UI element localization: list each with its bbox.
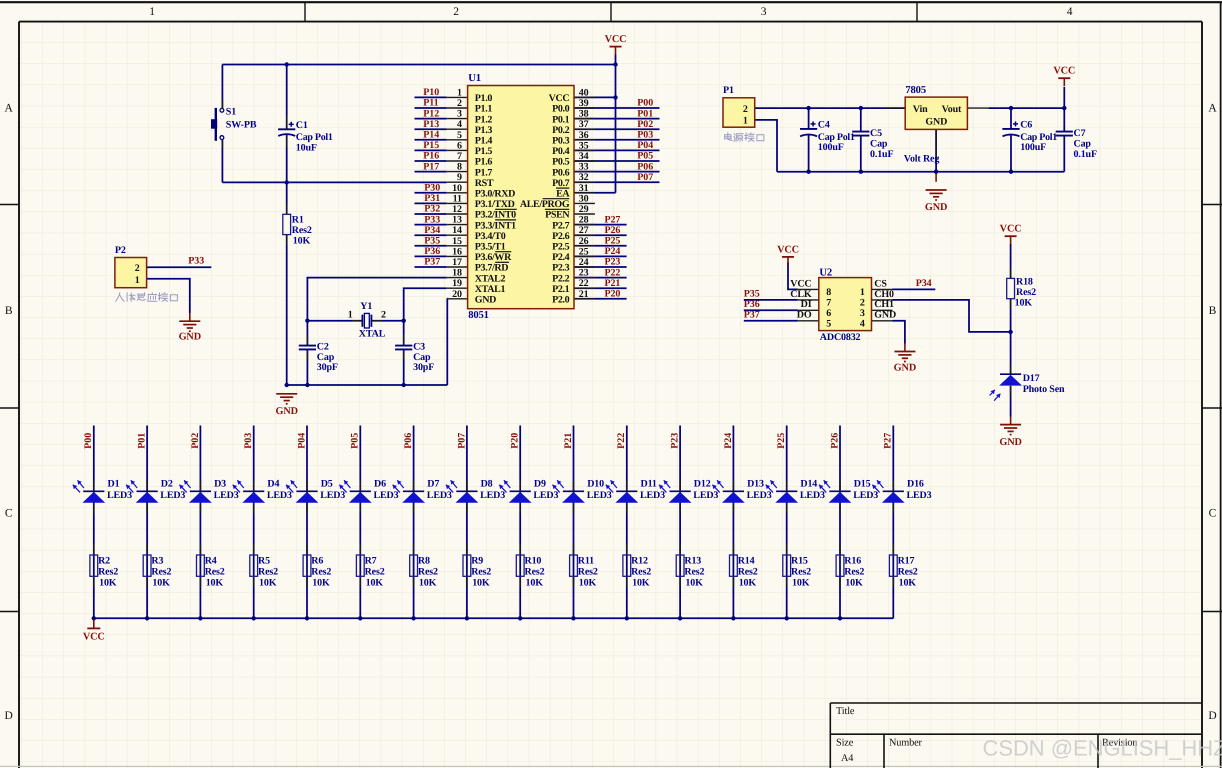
svg-text:24: 24	[579, 257, 589, 268]
svg-text:D: D	[5, 710, 13, 722]
svg-text:18: 18	[452, 268, 462, 279]
svg-text:P36: P36	[744, 299, 760, 310]
svg-text:Y1: Y1	[360, 301, 372, 312]
svg-text:VCC: VCC	[549, 93, 570, 104]
svg-text:Res2: Res2	[311, 567, 331, 578]
svg-text:P26: P26	[605, 225, 621, 236]
svg-text:6: 6	[457, 140, 462, 151]
svg-text:10K: 10K	[739, 578, 757, 589]
svg-text:D6: D6	[374, 478, 386, 489]
svg-text:Number: Number	[889, 737, 923, 748]
svg-text:10K: 10K	[419, 578, 437, 589]
svg-text:11: 11	[453, 193, 462, 204]
svg-text:VCC: VCC	[1000, 224, 1022, 235]
svg-text:0.1uF: 0.1uF	[1074, 149, 1097, 160]
svg-text:3: 3	[761, 6, 767, 18]
svg-text:P33: P33	[424, 214, 440, 225]
svg-text:U1: U1	[468, 73, 481, 84]
svg-text:10K: 10K	[366, 578, 384, 589]
svg-text:D9: D9	[534, 478, 546, 489]
svg-text:P24: P24	[605, 246, 621, 257]
svg-text:EA: EA	[556, 189, 570, 200]
svg-text:P03: P03	[637, 130, 653, 141]
svg-text:P3.4/T0: P3.4/T0	[475, 231, 506, 242]
svg-text:30: 30	[579, 193, 589, 204]
svg-text:C7: C7	[1074, 128, 1086, 139]
svg-text:9: 9	[457, 172, 462, 183]
svg-text:Res2: Res2	[738, 567, 758, 578]
svg-text:D12: D12	[694, 478, 711, 489]
svg-text:Volt Reg: Volt Reg	[904, 153, 940, 164]
svg-text:4: 4	[860, 318, 865, 329]
svg-text:R12: R12	[631, 556, 648, 567]
svg-text:12: 12	[452, 204, 462, 215]
svg-text:P1.4: P1.4	[475, 136, 493, 147]
svg-text:10K: 10K	[259, 578, 277, 589]
svg-text:P23: P23	[670, 433, 681, 449]
svg-text:P3.6/WR: P3.6/WR	[475, 252, 512, 263]
svg-text:22: 22	[579, 278, 589, 289]
svg-text:P2: P2	[115, 245, 126, 256]
svg-text:P04: P04	[296, 433, 307, 449]
svg-text:P13: P13	[423, 119, 439, 130]
svg-text:P36: P36	[424, 246, 440, 257]
svg-text:26: 26	[579, 236, 589, 247]
svg-text:R4: R4	[205, 556, 217, 567]
svg-text:P05: P05	[637, 151, 653, 162]
svg-text:10K: 10K	[685, 578, 703, 589]
svg-text:7: 7	[826, 297, 831, 308]
svg-text:23: 23	[579, 268, 589, 279]
svg-text:B: B	[1209, 305, 1217, 317]
svg-text:P07: P07	[637, 172, 653, 183]
svg-text:1: 1	[860, 287, 865, 298]
svg-text:8051: 8051	[468, 310, 489, 321]
svg-text:32: 32	[579, 172, 589, 183]
svg-text:6: 6	[826, 308, 831, 319]
svg-text:GND: GND	[874, 310, 896, 321]
svg-text:VCC: VCC	[790, 278, 811, 289]
svg-text:P3.1/TXD: P3.1/TXD	[475, 199, 515, 210]
svg-text:17: 17	[452, 257, 462, 268]
svg-text:10K: 10K	[152, 578, 170, 589]
svg-text:CH0: CH0	[874, 289, 894, 300]
svg-text:15: 15	[452, 236, 462, 247]
svg-text:R16: R16	[844, 556, 861, 567]
svg-text:36: 36	[579, 130, 589, 141]
svg-text:D14: D14	[800, 478, 817, 489]
svg-text:31: 31	[579, 183, 589, 194]
svg-text:2: 2	[860, 297, 865, 308]
svg-text:P0.7: P0.7	[552, 178, 570, 189]
svg-text:P02: P02	[637, 119, 653, 130]
svg-text:10K: 10K	[526, 578, 544, 589]
svg-text:1: 1	[135, 275, 140, 286]
svg-text:P11: P11	[423, 98, 438, 109]
svg-text:R18: R18	[1016, 277, 1033, 288]
svg-text:Res2: Res2	[525, 567, 545, 578]
svg-text:DO: DO	[797, 310, 812, 321]
svg-text:DI: DI	[801, 299, 812, 310]
svg-text:P25: P25	[605, 236, 621, 247]
svg-text:P2.4: P2.4	[552, 252, 570, 263]
svg-text:P2.3: P2.3	[552, 263, 570, 274]
svg-text:10K: 10K	[312, 578, 330, 589]
svg-text:29: 29	[579, 204, 589, 215]
svg-text:28: 28	[579, 215, 589, 226]
svg-text:C3: C3	[413, 342, 425, 353]
svg-text:25: 25	[579, 246, 589, 257]
svg-text:R17: R17	[898, 556, 915, 567]
svg-text:10K: 10K	[472, 578, 490, 589]
svg-text:Res2: Res2	[631, 567, 651, 578]
svg-text:27: 27	[579, 225, 589, 236]
svg-text:2: 2	[453, 6, 459, 18]
svg-text:LED3: LED3	[640, 490, 665, 501]
svg-text:30pF: 30pF	[317, 362, 338, 373]
svg-text:5: 5	[826, 318, 831, 329]
svg-text:8: 8	[457, 162, 462, 173]
svg-text:S1: S1	[226, 107, 236, 118]
svg-text:Vin: Vin	[913, 104, 928, 115]
svg-text:CLK: CLK	[790, 289, 812, 300]
svg-text:Res2: Res2	[684, 567, 704, 578]
svg-text:C4: C4	[818, 120, 830, 131]
svg-text:LED3: LED3	[747, 490, 772, 501]
svg-text:Res2: Res2	[844, 567, 864, 578]
svg-text:SW-PB: SW-PB	[226, 119, 257, 130]
svg-text:P27: P27	[605, 214, 621, 225]
svg-text:Res2: Res2	[791, 567, 811, 578]
svg-text:Res2: Res2	[1016, 287, 1036, 298]
svg-text:GND: GND	[475, 295, 496, 306]
svg-text:LED3: LED3	[587, 490, 612, 501]
svg-text:P1.3: P1.3	[475, 125, 493, 136]
svg-text:P22: P22	[605, 267, 621, 278]
svg-text:P1.1: P1.1	[475, 104, 493, 115]
svg-text:4: 4	[457, 119, 462, 130]
svg-text:VCC: VCC	[777, 244, 799, 255]
svg-text:1: 1	[149, 6, 155, 18]
svg-text:P17: P17	[423, 161, 439, 172]
svg-text:C5: C5	[870, 128, 882, 139]
svg-text:1: 1	[743, 116, 748, 127]
svg-text:R10: R10	[525, 556, 542, 567]
svg-text:34: 34	[579, 151, 589, 162]
svg-text:P3.2/INT0: P3.2/INT0	[475, 210, 516, 221]
svg-text:P1.6: P1.6	[475, 157, 493, 168]
svg-text:C1: C1	[296, 120, 308, 131]
svg-text:ALE/PROG: ALE/PROG	[520, 199, 570, 210]
svg-text:LED3: LED3	[480, 490, 505, 501]
svg-text:XTAL: XTAL	[359, 328, 386, 339]
svg-text:R6: R6	[311, 556, 323, 567]
svg-text:C: C	[1209, 508, 1217, 520]
svg-text:P10: P10	[423, 87, 439, 98]
svg-text:10K: 10K	[845, 578, 863, 589]
svg-text:D: D	[1208, 710, 1216, 722]
svg-text:10K: 10K	[293, 236, 311, 247]
svg-text:R2: R2	[98, 556, 110, 567]
svg-text:P1: P1	[723, 85, 734, 96]
svg-text:PSEN: PSEN	[545, 210, 570, 221]
svg-text:0.1uF: 0.1uF	[870, 149, 893, 160]
svg-text:P15: P15	[423, 140, 439, 151]
svg-text:D15: D15	[854, 478, 871, 489]
svg-text:B: B	[5, 305, 13, 317]
svg-text:P0.0: P0.0	[552, 104, 570, 115]
svg-text:GND: GND	[894, 363, 916, 374]
svg-text:D8: D8	[481, 478, 493, 489]
svg-text:P2.7: P2.7	[552, 220, 570, 231]
svg-text:P25: P25	[776, 433, 787, 449]
svg-text:P21: P21	[563, 433, 574, 449]
svg-text:D10: D10	[587, 478, 604, 489]
svg-text:2: 2	[743, 104, 748, 115]
svg-text:LED3: LED3	[907, 490, 932, 501]
svg-text:P04: P04	[637, 140, 653, 151]
svg-text:P32: P32	[424, 204, 440, 215]
svg-text:20: 20	[452, 289, 462, 300]
svg-text:P00: P00	[637, 98, 653, 109]
svg-text:Res2: Res2	[151, 567, 171, 578]
svg-text:R1: R1	[292, 215, 304, 226]
svg-text:10: 10	[452, 183, 462, 194]
svg-text:P37: P37	[744, 309, 760, 320]
svg-text:10K: 10K	[99, 578, 117, 589]
svg-text:LED3: LED3	[853, 490, 878, 501]
svg-text:Vout: Vout	[942, 104, 962, 115]
svg-text:P20: P20	[510, 433, 521, 449]
svg-text:D11: D11	[641, 478, 657, 489]
svg-text:D2: D2	[161, 478, 173, 489]
svg-text:Title: Title	[836, 706, 855, 717]
svg-text:P23: P23	[605, 257, 621, 268]
svg-text:P1.2: P1.2	[475, 114, 493, 125]
svg-text:10K: 10K	[206, 578, 224, 589]
svg-text:P20: P20	[605, 289, 621, 300]
svg-text:37: 37	[579, 119, 589, 130]
svg-text:LED3: LED3	[267, 490, 292, 501]
svg-text:LED3: LED3	[374, 490, 399, 501]
svg-text:13: 13	[452, 215, 462, 226]
svg-text:P34: P34	[916, 278, 932, 289]
svg-text:P14: P14	[423, 130, 439, 141]
svg-text:P35: P35	[424, 236, 440, 247]
svg-text:GND: GND	[999, 437, 1021, 448]
svg-text:2: 2	[135, 263, 140, 274]
svg-text:P12: P12	[423, 108, 439, 119]
svg-text:14: 14	[452, 225, 462, 236]
svg-text:P1.0: P1.0	[475, 93, 493, 104]
svg-text:LED3: LED3	[427, 490, 452, 501]
svg-text:R13: R13	[684, 556, 701, 567]
svg-text:P21: P21	[605, 278, 621, 289]
svg-text:P02: P02	[190, 433, 201, 449]
svg-text:Size: Size	[836, 737, 854, 748]
svg-text:P27: P27	[883, 433, 894, 449]
svg-text:4: 4	[1067, 6, 1073, 18]
svg-text:LED3: LED3	[533, 490, 558, 501]
svg-text:D7: D7	[427, 478, 439, 489]
svg-text:P24: P24	[723, 433, 734, 449]
svg-text:P22: P22	[616, 433, 627, 449]
svg-text:LED3: LED3	[693, 490, 718, 501]
svg-text:P31: P31	[424, 193, 440, 204]
svg-text:VCC: VCC	[83, 632, 105, 643]
svg-text:39: 39	[579, 98, 589, 109]
svg-text:P05: P05	[350, 433, 361, 449]
svg-text:Res2: Res2	[205, 567, 225, 578]
svg-text:P1.7: P1.7	[475, 167, 493, 178]
svg-text:P33: P33	[188, 256, 204, 267]
svg-text:A: A	[1208, 103, 1217, 115]
svg-text:10K: 10K	[632, 578, 650, 589]
svg-text:R3: R3	[151, 556, 163, 567]
svg-text:P3.5/T1: P3.5/T1	[475, 242, 506, 253]
svg-text:VCC: VCC	[1053, 66, 1075, 77]
svg-text:100uF: 100uF	[818, 142, 844, 153]
svg-text:C2: C2	[317, 342, 329, 353]
svg-text:Cap: Cap	[870, 139, 888, 150]
svg-text:R15: R15	[791, 556, 808, 567]
svg-text:GND: GND	[925, 116, 947, 127]
svg-text:D5: D5	[321, 478, 333, 489]
svg-text:5: 5	[457, 130, 462, 141]
svg-text:XTAL1: XTAL1	[475, 284, 506, 295]
svg-text:VCC: VCC	[605, 34, 627, 45]
svg-text:Res2: Res2	[292, 225, 312, 236]
svg-text:P2.2: P2.2	[552, 273, 570, 284]
svg-text:30pF: 30pF	[413, 362, 434, 373]
svg-text:C6: C6	[1020, 120, 1032, 131]
svg-text:8: 8	[826, 287, 831, 298]
svg-text:D13: D13	[747, 478, 764, 489]
svg-text:P30: P30	[424, 183, 440, 194]
svg-text:10K: 10K	[899, 578, 917, 589]
svg-text:LED3: LED3	[214, 490, 239, 501]
svg-text:P3.3/INT1: P3.3/INT1	[475, 220, 516, 231]
svg-text:CSDN @ENGLISH_HHZ: CSDN @ENGLISH_HHZ	[983, 736, 1222, 761]
svg-text:10uF: 10uF	[296, 142, 317, 153]
svg-text:1: 1	[457, 87, 462, 98]
svg-text:P06: P06	[403, 433, 414, 449]
svg-text:P0.1: P0.1	[552, 114, 570, 125]
svg-text:P0.5: P0.5	[552, 157, 570, 168]
svg-text:GND: GND	[275, 406, 297, 417]
svg-text:CH1: CH1	[874, 299, 894, 310]
svg-text:D4: D4	[267, 478, 279, 489]
svg-text:P03: P03	[243, 433, 254, 449]
svg-text:R11: R11	[578, 556, 594, 567]
svg-text:2: 2	[381, 309, 386, 320]
svg-text:R9: R9	[471, 556, 483, 567]
svg-text:21: 21	[579, 289, 589, 300]
svg-text:LED3: LED3	[800, 490, 825, 501]
svg-text:ADC0832: ADC0832	[820, 332, 861, 343]
svg-text:P2.1: P2.1	[552, 284, 570, 295]
svg-text:P01: P01	[637, 108, 653, 119]
svg-text:Res2: Res2	[365, 567, 385, 578]
svg-text:P35: P35	[744, 289, 760, 300]
svg-text:RST: RST	[475, 178, 494, 189]
svg-text:R8: R8	[418, 556, 430, 567]
svg-text:10K: 10K	[792, 578, 810, 589]
svg-text:LED3: LED3	[107, 490, 132, 501]
svg-text:3: 3	[457, 109, 462, 120]
svg-text:2: 2	[457, 98, 462, 109]
svg-text:P0.3: P0.3	[552, 136, 570, 147]
svg-text:35: 35	[579, 140, 589, 151]
svg-text:P2.0: P2.0	[552, 295, 570, 306]
svg-text:C: C	[5, 508, 13, 520]
svg-text:P0.4: P0.4	[552, 146, 570, 157]
svg-text:19: 19	[452, 278, 462, 289]
svg-text:38: 38	[579, 109, 589, 120]
svg-text:10K: 10K	[579, 578, 597, 589]
svg-text:Res2: Res2	[471, 567, 491, 578]
svg-text:100uF: 100uF	[1020, 142, 1046, 153]
svg-text:1: 1	[348, 309, 353, 320]
svg-text:LED3: LED3	[320, 490, 345, 501]
svg-text:P1.5: P1.5	[475, 146, 493, 157]
svg-text:16: 16	[452, 246, 462, 257]
svg-text:R5: R5	[258, 556, 270, 567]
svg-text:P34: P34	[424, 225, 440, 236]
svg-text:33: 33	[579, 162, 589, 173]
svg-text:D17: D17	[1023, 373, 1040, 384]
svg-text:40: 40	[579, 87, 589, 98]
svg-text:U2: U2	[819, 268, 832, 279]
svg-text:P07: P07	[456, 433, 467, 449]
svg-text:P0.6: P0.6	[552, 167, 570, 178]
svg-text:P26: P26	[829, 433, 840, 449]
svg-text:P2.6: P2.6	[552, 231, 570, 242]
svg-text:Photo Sen: Photo Sen	[1023, 384, 1065, 395]
svg-text:Res2: Res2	[418, 567, 438, 578]
svg-text:R7: R7	[365, 556, 377, 567]
svg-text:D1: D1	[108, 478, 120, 489]
svg-text:Res2: Res2	[578, 567, 598, 578]
svg-text:P06: P06	[637, 161, 653, 172]
svg-text:Res2: Res2	[898, 567, 918, 578]
svg-text:P37: P37	[424, 257, 440, 268]
svg-text:7: 7	[457, 151, 462, 162]
svg-text:Cap: Cap	[1074, 139, 1092, 150]
svg-text:P3.0/RXD: P3.0/RXD	[475, 189, 515, 200]
svg-text:GND: GND	[925, 202, 947, 213]
svg-text:A: A	[5, 103, 14, 115]
svg-text:A4: A4	[841, 753, 853, 764]
svg-text:R14: R14	[738, 556, 755, 567]
svg-text:D16: D16	[907, 478, 924, 489]
svg-text:Res2: Res2	[258, 567, 278, 578]
svg-text:XTAL2: XTAL2	[475, 273, 506, 284]
svg-text:D3: D3	[214, 478, 226, 489]
svg-text:P01: P01	[137, 433, 148, 449]
svg-text:P0.2: P0.2	[552, 125, 570, 136]
svg-text:P00: P00	[83, 433, 94, 449]
svg-text:7805: 7805	[905, 85, 926, 96]
svg-text:CS: CS	[874, 278, 887, 289]
svg-text:P16: P16	[423, 151, 439, 162]
svg-text:LED3: LED3	[160, 490, 185, 501]
svg-text:P2.5: P2.5	[552, 242, 570, 253]
svg-text:GND: GND	[179, 332, 201, 343]
svg-text:3: 3	[860, 308, 865, 319]
svg-text:10K: 10K	[1015, 298, 1033, 309]
svg-text:P3.7/RD: P3.7/RD	[475, 263, 509, 274]
